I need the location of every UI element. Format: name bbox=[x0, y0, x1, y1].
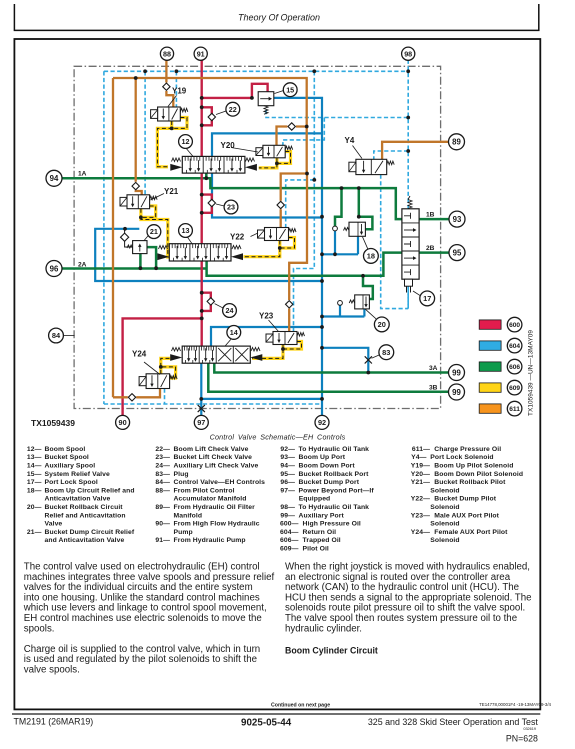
svg-text:Bucket Lift Check Valve: Bucket Lift Check Valve bbox=[174, 454, 253, 461]
svg-text:Valve: Valve bbox=[45, 521, 63, 528]
auxiliary spool valve 14 bbox=[182, 346, 250, 363]
wire Y21 return drop (cyan dashed) bbox=[144, 71, 146, 195]
svg-text:325 and 328 Skid Steer Operati: 325 and 328 Skid Steer Operation and Tes… bbox=[368, 717, 539, 727]
pilot solenoid valve Y23 bbox=[273, 332, 297, 345]
svg-text:Male AUX Port Pilot: Male AUX Port Pilot bbox=[434, 512, 499, 519]
orifice on Y23 charge line bbox=[286, 301, 293, 308]
svg-text:Solenoid: Solenoid bbox=[430, 504, 459, 511]
svg-text:TX1059439 —UN—13MAY09: TX1059439 —UN—13MAY09 bbox=[528, 330, 535, 416]
svg-text:Y23—: Y23— bbox=[411, 512, 430, 519]
svg-text:Boom Lift Check Valve: Boom Lift Check Valve bbox=[174, 446, 249, 453]
wire Y4 drain loop (cyan dashed) bbox=[381, 175, 409, 309]
wire valve 14 tank link (teal) bbox=[211, 327, 322, 346]
node 90 from high flow hydraulic pump bbox=[116, 415, 130, 429]
junction dots orange bbox=[134, 76, 138, 80]
svg-text:Port Lock Solenoid: Port Lock Solenoid bbox=[430, 454, 493, 461]
svg-text:17—: 17— bbox=[27, 479, 42, 486]
pilot solenoid valve Y19 bbox=[158, 107, 181, 121]
junction dots red bbox=[200, 96, 204, 100]
valve 14 right pilot bbox=[251, 348, 260, 352]
svg-text:14—: 14— bbox=[27, 463, 42, 470]
system relief valve 15 bbox=[258, 92, 274, 106]
svg-text:88: 88 bbox=[163, 49, 171, 58]
svg-text:Y23: Y23 bbox=[259, 312, 274, 321]
svg-text:24—: 24— bbox=[155, 463, 170, 470]
wire check 24 bypass (red) bbox=[202, 293, 211, 311]
wire valve 21 port links (green) bbox=[140, 247, 156, 268]
node 97 power beyond port bbox=[194, 415, 208, 429]
svg-text:Continued on next page: Continued on next page bbox=[271, 703, 330, 709]
check valve 22 boom lift bbox=[208, 113, 215, 120]
svg-text:88—: 88— bbox=[155, 487, 170, 494]
wire charge left drop (orange) bbox=[113, 78, 160, 397]
node 96 bucket dump port bbox=[46, 261, 62, 277]
node 92 to hydraulic oil tank bbox=[315, 415, 329, 429]
svg-text:24: 24 bbox=[226, 306, 234, 315]
svg-text:Bucket Rollback Pilot: Bucket Rollback Pilot bbox=[434, 479, 506, 486]
svg-text:94—: 94— bbox=[280, 463, 295, 470]
svg-text:Boom Up Circuit Relief and: Boom Up Circuit Relief and bbox=[45, 487, 135, 494]
svg-text:95: 95 bbox=[453, 248, 462, 257]
port lock spool valve 17 bbox=[402, 209, 419, 279]
wire valve 18 drain (teal) bbox=[322, 231, 358, 254]
wire valve 17 drain (cyan dashed) bbox=[407, 281, 409, 309]
wire charge to Y22 (orange) bbox=[281, 174, 307, 228]
svg-text:15: 15 bbox=[286, 85, 294, 94]
svg-text:99: 99 bbox=[452, 388, 461, 397]
valve 18 pilot port circle bbox=[333, 226, 338, 231]
wire check 23 bypass (red) bbox=[202, 195, 212, 213]
svg-text:Y21: Y21 bbox=[164, 187, 179, 196]
svg-text:Plug: Plug bbox=[174, 471, 189, 478]
wire plug 83 line (teal) bbox=[322, 348, 368, 373]
orifice on Y24 charge line bbox=[128, 394, 135, 401]
svg-text:Boom Up Port: Boom Up Port bbox=[299, 454, 346, 461]
svg-text:18: 18 bbox=[367, 252, 375, 261]
junction dots return bus bbox=[143, 69, 147, 73]
svg-text:609—: 609— bbox=[280, 546, 299, 553]
svg-text:96—: 96— bbox=[280, 479, 295, 486]
svg-text:23: 23 bbox=[227, 203, 235, 212]
svg-text:Y22: Y22 bbox=[230, 233, 245, 242]
check valve 24 auxiliary lift bbox=[207, 298, 214, 305]
svg-text:Bucket Dump Pilot: Bucket Dump Pilot bbox=[434, 496, 496, 503]
svg-text:92—: 92— bbox=[280, 446, 295, 453]
pilot solenoid valve Y22 bbox=[265, 228, 289, 241]
svg-text:Theory Of Operation: Theory Of Operation bbox=[238, 13, 320, 23]
valve 13 right pilot bbox=[232, 246, 241, 250]
svg-text:Boom Up Pilot Solenoid: Boom Up Pilot Solenoid bbox=[434, 463, 513, 470]
svg-text:22—: 22— bbox=[155, 446, 170, 453]
svg-text:Bucket Rollback Port: Bucket Rollback Port bbox=[299, 471, 370, 478]
svg-text:Y21—: Y21— bbox=[411, 479, 430, 486]
wire 2A bucket dump line (green) bbox=[62, 267, 207, 270]
bucket rollback relief valve 20 bbox=[355, 295, 370, 309]
svg-text:14: 14 bbox=[230, 328, 238, 337]
legend swatch 609 pilot oil (yellow) bbox=[479, 383, 501, 392]
svg-text:611—: 611— bbox=[412, 446, 430, 453]
svg-text:Solenoid: Solenoid bbox=[430, 487, 459, 494]
bucket spool valve 13 bbox=[169, 244, 231, 261]
wire Y24 pilot loop (yellow) bbox=[161, 367, 176, 378]
svg-text:98: 98 bbox=[404, 49, 412, 58]
svg-text:Solenoid: Solenoid bbox=[430, 537, 459, 544]
node 94 boom down port bbox=[46, 170, 62, 186]
wire pump supply 91 main (red) bbox=[200, 60, 202, 346]
svg-text:hydraulic cylinder.: hydraulic cylinder. bbox=[285, 623, 362, 634]
valve 21 check diamond bbox=[121, 233, 129, 241]
bucket dump relief valve 21 bbox=[133, 241, 147, 254]
wire Y20 pilot loop (yellow) bbox=[277, 152, 291, 164]
svg-text:90—: 90— bbox=[155, 521, 170, 528]
label circle 14 bbox=[227, 326, 241, 340]
svg-text:21—: 21— bbox=[27, 529, 42, 536]
wire relief 15 feed (red) bbox=[202, 84, 268, 98]
control valve boundary 84 (dash-dot box) bbox=[74, 66, 441, 408]
power beyond plug X mark on 97 line bbox=[198, 405, 205, 412]
svg-text:Y24: Y24 bbox=[132, 350, 147, 359]
svg-text:Trapped Oil: Trapped Oil bbox=[303, 537, 341, 544]
svg-text:Control Valve—EH Controls: Control Valve—EH Controls bbox=[174, 479, 266, 486]
svg-text:High Pressure Oil: High Pressure Oil bbox=[303, 521, 361, 528]
boom relief valve 18 bbox=[349, 222, 365, 236]
valve 17 bottom tail bbox=[405, 279, 413, 286]
svg-text:18—: 18— bbox=[27, 487, 42, 494]
svg-text:PN=628: PN=628 bbox=[506, 733, 538, 743]
svg-text:Y22—: Y22— bbox=[411, 496, 430, 503]
wire Y23 pilot to valve 14 (yellow) bbox=[252, 345, 283, 359]
port lock solenoid valve Y4 bbox=[356, 159, 387, 174]
legend swatch 611 charge pressure oil (orange) bbox=[479, 404, 501, 413]
svg-text:9025-05-44: 9025-05-44 bbox=[241, 717, 292, 728]
svg-text:Y19—: Y19— bbox=[411, 463, 430, 470]
svg-text:Y20: Y20 bbox=[221, 141, 236, 150]
svg-text:Charge Pressure Oil: Charge Pressure Oil bbox=[434, 446, 501, 453]
label circle 22 bbox=[226, 102, 240, 116]
wire Y23 pilot loop (yellow) bbox=[283, 342, 302, 350]
node 98 to hydraulic oil tank bbox=[402, 47, 415, 60]
wire charge to Y21 (orange) bbox=[136, 78, 142, 195]
wire 3B auxiliary line (green) bbox=[208, 363, 448, 392]
wire 97 to 92 link (teal) bbox=[201, 398, 322, 400]
svg-text:97—: 97— bbox=[280, 487, 295, 494]
svg-text:604: 604 bbox=[509, 343, 520, 350]
node 99 auxiliary port 3B bbox=[449, 384, 465, 400]
svg-text:20: 20 bbox=[378, 320, 386, 329]
svg-text:Boom Down Pilot Solenoid: Boom Down Pilot Solenoid bbox=[434, 471, 523, 478]
svg-text:606: 606 bbox=[509, 364, 520, 371]
wire valve 15 tank line (cyan dashed) bbox=[266, 110, 408, 118]
valve 12 left pilot bbox=[172, 158, 181, 162]
svg-text:99: 99 bbox=[452, 368, 461, 377]
node 99 auxiliary port 3A bbox=[449, 365, 465, 381]
wire Y22 return branch (cyan dashed) bbox=[286, 180, 315, 228]
wire Y22 pilot to valve 13 (yellow) bbox=[244, 241, 280, 257]
svg-text:and Anticavitation Valve: and Anticavitation Valve bbox=[45, 537, 125, 544]
svg-text:21: 21 bbox=[150, 227, 158, 236]
svg-text:Y20—: Y20— bbox=[411, 471, 430, 478]
wire check 22 bypass (red) bbox=[202, 107, 212, 125]
wire Y21 pilot loop (yellow) bbox=[141, 206, 156, 217]
svg-text:Anticavitation Valve: Anticavitation Valve bbox=[45, 496, 111, 503]
svg-text:Boom Down Port: Boom Down Port bbox=[299, 463, 356, 470]
svg-text:Relief and Anticavitation: Relief and Anticavitation bbox=[45, 512, 126, 519]
wire Y24 pilot to valve 14 (yellow) bbox=[161, 358, 171, 373]
svg-text:Female AUX Port Pilot: Female AUX Port Pilot bbox=[434, 529, 508, 536]
pilot solenoid valve Y24 bbox=[146, 374, 170, 389]
svg-text:Auxiliary Port: Auxiliary Port bbox=[299, 512, 345, 519]
wire charge 88 to Y19 (orange) bbox=[166, 60, 173, 107]
valve 13 left pilot bbox=[159, 246, 168, 250]
junction dots teal bbox=[320, 215, 324, 219]
svg-text:600—: 600— bbox=[280, 521, 299, 528]
svg-text:99—: 99— bbox=[280, 512, 295, 519]
wire Y21 pilot to valve 13 (yellow) bbox=[141, 209, 169, 257]
svg-text:91—: 91— bbox=[155, 537, 170, 544]
svg-text:From Pilot Control: From Pilot Control bbox=[174, 487, 235, 494]
svg-text:1B: 1B bbox=[426, 211, 435, 218]
valve 15 spring bbox=[264, 106, 268, 115]
svg-text:Pilot Oil: Pilot Oil bbox=[303, 546, 329, 553]
svg-text:3B: 3B bbox=[429, 384, 438, 391]
node 84 control valve EH controls bbox=[49, 328, 64, 343]
svg-text:12: 12 bbox=[182, 137, 190, 146]
svg-text:96: 96 bbox=[50, 264, 59, 273]
orifice on Y21 charge line bbox=[132, 182, 139, 189]
svg-text:12—: 12— bbox=[27, 446, 42, 453]
svg-text:20—: 20— bbox=[27, 504, 42, 511]
label circle 24 bbox=[223, 304, 237, 318]
svg-text:Auxiliary Lift Check Valve: Auxiliary Lift Check Valve bbox=[174, 463, 259, 470]
svg-text:TE14778,00001F4 -19-13MAY09-3/: TE14778,00001F4 -19-13MAY09-3/4 bbox=[479, 702, 551, 707]
wire Y20 pilot to valve 12 (yellow) bbox=[259, 158, 277, 168]
wire valve 20 feed (green) bbox=[363, 276, 373, 299]
wire charge to Y20 (orange) bbox=[277, 127, 307, 146]
svg-text:Pump: Pump bbox=[174, 529, 193, 536]
svg-text:84—: 84— bbox=[155, 479, 170, 486]
leader lines to labels bbox=[185, 147, 193, 156]
valve 14 left pilot bbox=[172, 348, 181, 352]
pilot solenoid valve Y20 bbox=[263, 145, 285, 158]
wire 1A boom down line (green) bbox=[62, 173, 402, 219]
svg-text:From High Flow Hydraulic: From High Flow Hydraulic bbox=[174, 521, 260, 528]
legend swatch 604 return oil (blue) bbox=[479, 341, 501, 350]
svg-text:93—: 93— bbox=[280, 454, 295, 461]
svg-text:1A: 1A bbox=[78, 171, 87, 178]
svg-text:From Hydraulic Pump: From Hydraulic Pump bbox=[174, 537, 246, 544]
svg-text:Bucket Dump Port: Bucket Dump Port bbox=[299, 479, 360, 486]
wire valve 12 tank link (teal) bbox=[212, 133, 322, 217]
svg-text:17: 17 bbox=[423, 294, 431, 303]
svg-text:89—: 89— bbox=[155, 504, 170, 511]
check valve 23 bucket lift bbox=[208, 199, 215, 206]
svg-text:91: 91 bbox=[197, 49, 205, 58]
wire valve 21 return box (teal) bbox=[95, 229, 322, 281]
wire valve 18 feed (green) bbox=[335, 188, 372, 229]
svg-text:89: 89 bbox=[452, 138, 461, 147]
wire return left drop (cyan dashed) bbox=[103, 71, 105, 404]
wire Y22 pilot loop (yellow) bbox=[280, 238, 295, 249]
label circle 12 bbox=[179, 135, 193, 149]
svg-text:22: 22 bbox=[229, 105, 237, 114]
svg-text:604—: 604— bbox=[280, 529, 299, 536]
svg-text:3A: 3A bbox=[429, 365, 438, 372]
wire tank main drop to 92 (teal) bbox=[274, 98, 322, 416]
wire 2B bucket rollback line (green) bbox=[419, 251, 450, 254]
wire high flow pump 90 line (red) bbox=[123, 318, 202, 415]
svg-text:Accumulator Manifold: Accumulator Manifold bbox=[174, 496, 247, 503]
node 95 bucket rollback port bbox=[449, 245, 465, 261]
wire 3A auxiliary line (green) bbox=[214, 363, 448, 373]
svg-text:To Hydraulic Oil Tank: To Hydraulic Oil Tank bbox=[299, 504, 370, 511]
svg-text:From Hydraulic Oil Filter: From Hydraulic Oil Filter bbox=[174, 504, 256, 511]
wire Y20 return branch (cyan dashed) bbox=[283, 118, 324, 146]
svg-text:Auxiliary Spool: Auxiliary Spool bbox=[45, 463, 96, 470]
svg-text:98—: 98— bbox=[280, 504, 295, 511]
wire valve 13 to 2B (green) bbox=[207, 253, 402, 276]
orifice on Y20 charge line bbox=[288, 123, 295, 130]
valve 17 spring top bbox=[408, 200, 412, 209]
label circle 23 bbox=[224, 200, 238, 214]
orifice on Y22 charge line bbox=[277, 201, 284, 208]
label circle 18 bbox=[364, 249, 379, 264]
svg-text:13—: 13— bbox=[27, 454, 42, 461]
svg-text:Bucket Rollback Circuit: Bucket Rollback Circuit bbox=[45, 504, 124, 511]
pilot solenoid valve Y21 bbox=[127, 195, 150, 209]
boom spool valve 12 bbox=[182, 156, 245, 173]
svg-text:94: 94 bbox=[50, 174, 59, 183]
svg-text:Bucket Dump Circuit Relief: Bucket Dump Circuit Relief bbox=[45, 529, 135, 536]
footer rule bbox=[12, 713, 540, 715]
svg-text:Control Valve Schematic—EH Con: Control Valve Schematic—EH Controls bbox=[210, 433, 346, 442]
svg-text:Boom Cylinder Circuit: Boom Cylinder Circuit bbox=[285, 646, 378, 656]
svg-text:600: 600 bbox=[509, 322, 520, 329]
wire Y4 supply branch (cyan dashed) bbox=[374, 151, 408, 159]
label circle 13 bbox=[179, 224, 193, 238]
svg-text:92: 92 bbox=[318, 418, 326, 427]
label circle 20 bbox=[374, 317, 389, 332]
wire 1B boom up line (green) bbox=[419, 218, 450, 221]
orifice on 88 line bbox=[163, 83, 170, 90]
svg-text:13: 13 bbox=[182, 226, 190, 235]
svg-text:Port Lock Spool: Port Lock Spool bbox=[45, 479, 98, 486]
svg-text:609: 609 bbox=[509, 385, 520, 392]
label circle 15 bbox=[283, 83, 297, 97]
valve 12 right pilot bbox=[246, 158, 255, 162]
wire Y19 pilot to valve 12 (yellow) bbox=[157, 121, 171, 167]
svg-text:93: 93 bbox=[453, 215, 462, 224]
svg-text:Bucket Spool: Bucket Spool bbox=[45, 454, 89, 461]
svg-text:TX1059439: TX1059439 bbox=[31, 418, 75, 428]
svg-text:Y19: Y19 bbox=[172, 87, 187, 96]
wire return bottom bus (cyan dashed) bbox=[104, 403, 322, 405]
svg-text:032619: 032619 bbox=[523, 727, 536, 731]
svg-text:Y24—: Y24— bbox=[411, 529, 430, 536]
valve 20 pilot port circle bbox=[338, 301, 343, 306]
svg-text:To Hydraulic Oil Tank: To Hydraulic Oil Tank bbox=[299, 446, 370, 453]
svg-text:Y4: Y4 bbox=[345, 136, 355, 145]
node 88 from pilot control accumulator manifold bbox=[160, 47, 173, 60]
wire return right drop to 98 (cyan dashed) bbox=[407, 60, 409, 309]
wire valve 20 drain (teal) bbox=[322, 305, 364, 316]
svg-text:TM2191 (26MAR19): TM2191 (26MAR19) bbox=[14, 716, 94, 726]
svg-text:Return Oil: Return Oil bbox=[303, 529, 337, 536]
svg-text:2A: 2A bbox=[78, 262, 87, 269]
junction dots green bbox=[204, 176, 208, 180]
svg-text:Boom Spool: Boom Spool bbox=[45, 446, 86, 453]
svg-text:83—: 83— bbox=[155, 471, 170, 478]
svg-text:Y4—: Y4— bbox=[411, 454, 426, 461]
svg-text:90: 90 bbox=[119, 418, 127, 427]
legend swatch 606 trapped oil (green) bbox=[479, 362, 501, 371]
wire Y22/Y23 return drop (cyan dashed) bbox=[294, 71, 315, 331]
svg-text:23—: 23— bbox=[155, 454, 170, 461]
svg-text:606—: 606— bbox=[280, 537, 299, 544]
wire Y19 pilot loop (yellow) bbox=[172, 118, 187, 129]
page header rule bbox=[14, 4, 538, 30]
node 89 from hydraulic oil filter manifold bbox=[449, 134, 465, 150]
svg-text:Equipped: Equipped bbox=[299, 496, 331, 503]
svg-text:spools.: spools. bbox=[24, 623, 55, 634]
svg-text:2B: 2B bbox=[426, 245, 435, 252]
wire power beyond line to 97 (teal) bbox=[200, 363, 202, 415]
svg-text:valve spools.: valve spools. bbox=[24, 665, 80, 676]
node 93 boom up port bbox=[449, 211, 465, 227]
svg-text:95—: 95— bbox=[280, 471, 295, 478]
label circle 17 port lock spool bbox=[420, 291, 435, 306]
legend swatch 600 high pressure oil (red) bbox=[479, 320, 501, 329]
node 91 from hydraulic pump bbox=[194, 47, 207, 60]
plug 83 X mark bbox=[365, 356, 372, 363]
svg-text:84: 84 bbox=[52, 331, 61, 340]
svg-text:System Relief Valve: System Relief Valve bbox=[45, 471, 111, 478]
junction dots yellow pilots bbox=[170, 126, 174, 130]
label circle 83 plug bbox=[379, 345, 394, 360]
svg-text:Solenoid: Solenoid bbox=[430, 521, 459, 528]
svg-text:Manifold: Manifold bbox=[174, 512, 203, 519]
svg-text:15—: 15— bbox=[27, 471, 42, 478]
svg-text:83: 83 bbox=[382, 348, 390, 357]
wire Y24 return drop (cyan dashed) bbox=[164, 389, 166, 405]
svg-text:611: 611 bbox=[509, 406, 520, 413]
svg-text:Power Beyond Port—If: Power Beyond Port—If bbox=[299, 487, 375, 494]
wire Y19 return drop (cyan dashed) bbox=[175, 71, 177, 107]
wire charge to Y4 from 89 (orange) bbox=[382, 142, 449, 160]
wire return top bus (cyan dashed) bbox=[104, 70, 408, 72]
svg-text:EH control machines use electr: EH control machines use electric solenoi… bbox=[24, 613, 262, 624]
label circle 21 bbox=[147, 225, 161, 239]
wire charge main bus (orange) bbox=[113, 78, 307, 332]
svg-text:97: 97 bbox=[197, 418, 205, 427]
